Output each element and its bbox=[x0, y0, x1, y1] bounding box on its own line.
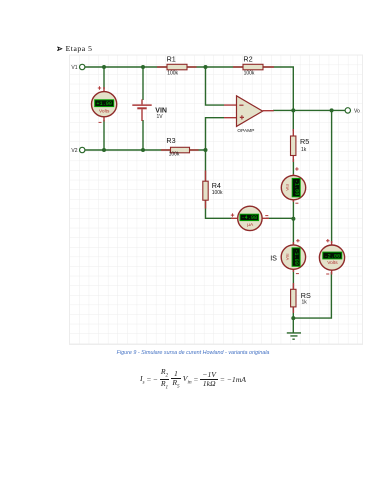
svg-text:100k: 100k bbox=[167, 70, 178, 76]
svg-text:mA: mA bbox=[285, 184, 290, 192]
svg-text:R1: R1 bbox=[167, 54, 176, 63]
wire voltmeter column bottom bbox=[103, 120, 105, 150]
junction node V2-battery bbox=[141, 148, 145, 152]
svg-text:µA: µA bbox=[247, 222, 254, 228]
wire bottom rail to right voltmeter bbox=[293, 272, 331, 318]
heading Etapa 5 bbox=[57, 46, 63, 52]
svg-text:-1.00: -1.00 bbox=[293, 249, 299, 265]
junction node output-R5 bbox=[291, 108, 295, 112]
terminal V2 bbox=[71, 147, 85, 154]
svg-text:100k: 100k bbox=[212, 190, 223, 196]
svg-text:1k: 1k bbox=[301, 147, 307, 153]
wire inverting input branch bbox=[206, 67, 225, 105]
voltmeter VM1 bbox=[92, 86, 117, 122]
svg-text:V2: V2 bbox=[71, 148, 77, 154]
resistor R2 bbox=[233, 54, 274, 76]
junction node V2-voltmeter bbox=[102, 148, 106, 152]
svg-text:1V: 1V bbox=[157, 114, 164, 120]
junction node ammeter row bbox=[291, 217, 295, 221]
junction node ground bbox=[291, 316, 295, 320]
svg-text:R4: R4 bbox=[212, 181, 221, 190]
ammeter IS vertical bbox=[270, 239, 305, 274]
wire right voltmeter column top bbox=[331, 110, 333, 243]
battery VIN bbox=[132, 99, 167, 121]
ground bbox=[287, 318, 301, 339]
svg-text:+1.00: +1.00 bbox=[96, 101, 112, 107]
wire output rail to Vo bbox=[273, 109, 345, 111]
resistor R4 bbox=[203, 171, 223, 209]
wire ammeter to IS column bbox=[266, 217, 293, 219]
svg-text:OPAMP: OPAMP bbox=[237, 128, 254, 133]
svg-text:R5: R5 bbox=[300, 137, 309, 146]
svg-text:RS: RS bbox=[301, 291, 311, 300]
wire R5 column bbox=[292, 110, 294, 131]
resistor R5 bbox=[291, 129, 310, 162]
wire RS to ground junction bbox=[292, 306, 294, 318]
voltmeter VM2 bbox=[319, 239, 344, 275]
wire non-inverting input branch bbox=[206, 118, 225, 150]
svg-text:1k: 1k bbox=[302, 300, 308, 306]
junction node B non-inverting bbox=[204, 148, 208, 152]
terminal Vo bbox=[345, 108, 360, 115]
wire voltmeter column top bbox=[103, 67, 105, 89]
svg-text:R2: R2 bbox=[243, 54, 252, 63]
ammeter AM2 vertical bbox=[281, 167, 305, 203]
junction node top-battery bbox=[141, 65, 145, 69]
figure caption bbox=[0, 350, 386, 356]
svg-text:Vo: Vo bbox=[354, 109, 360, 115]
svg-text:Volts: Volts bbox=[99, 108, 110, 114]
terminal V1 bbox=[71, 64, 85, 71]
svg-text:-2.00: -2.00 bbox=[325, 253, 341, 259]
svg-text:R3: R3 bbox=[166, 136, 175, 145]
junction node output-voltmeter2 bbox=[330, 108, 334, 112]
svg-text:Volts: Volts bbox=[327, 260, 338, 266]
resistor R1 bbox=[157, 54, 197, 76]
formula bbox=[0, 368, 386, 391]
wire R4 column to ammeter row bbox=[206, 150, 234, 218]
wire top rail V1 to R2 right corner bbox=[85, 67, 293, 110]
resistor RS bbox=[291, 283, 311, 313]
junction node top-voltmeter bbox=[102, 65, 106, 69]
svg-text:-4.98: -4.98 bbox=[242, 215, 258, 221]
svg-text:V1: V1 bbox=[71, 65, 77, 71]
svg-text:-1.00: -1.00 bbox=[293, 180, 299, 196]
wire V2 rail bbox=[85, 149, 206, 151]
svg-text:IS: IS bbox=[270, 253, 277, 262]
svg-text:100k: 100k bbox=[244, 70, 255, 76]
wire R5 to ammeter A1 bbox=[292, 159, 294, 176]
wire battery column bottom bbox=[142, 120, 144, 150]
op-amp U1 bbox=[224, 96, 274, 133]
wire ammeter A1 to junction bbox=[292, 200, 294, 245]
wire battery column top bbox=[142, 67, 144, 100]
resistor R3 bbox=[161, 136, 199, 158]
svg-text:mA: mA bbox=[285, 253, 290, 261]
junction node A inverting bbox=[204, 65, 208, 69]
wire IS to RS bbox=[292, 270, 294, 291]
ammeter AM1 horizontal bbox=[231, 206, 269, 230]
svg-text:100k: 100k bbox=[169, 152, 180, 158]
